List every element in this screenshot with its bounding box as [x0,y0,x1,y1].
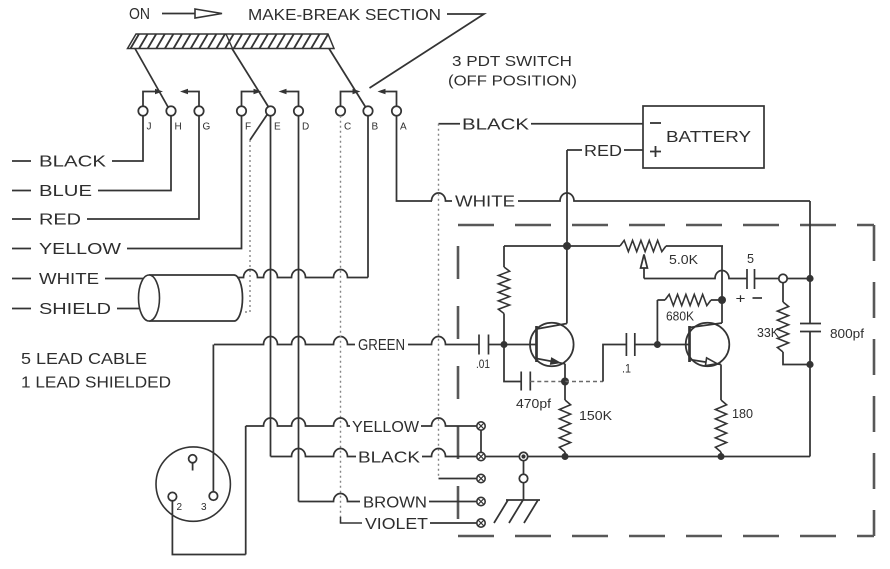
wire 680K down to Q2 base node [656,300,658,345]
lead-in dash for RED [12,218,31,220]
wire pin 2 to YELLOW riser [172,426,245,555]
connector pin 1 key [189,455,197,463]
svg-text:YELLOW: YELLOW [39,241,121,258]
wire WHITE to right rail with hop over RED [518,193,810,201]
svg-text:J: J [147,122,152,133]
svg-text:GREEN: GREEN [358,337,405,354]
dotted wire 470pf to emitter node [530,381,565,383]
capacitor C5 800pf [800,324,821,332]
svg-text:(OFF POSITION): (OFF POSITION) [448,73,577,90]
slider link to contact E [232,49,269,108]
svg-text:5.0K: 5.0K [669,252,698,267]
transistor Q1 [530,323,574,367]
wire ground rail [485,456,810,458]
wire base node down to 470pf [504,345,521,382]
wire wiper to capacitor with hop [644,271,747,279]
svg-text:180: 180 [732,406,753,421]
wire VIOLET row [341,517,363,523]
wire pot end down to collector node Q2 [721,246,723,323]
svg-text:E: E [274,122,281,133]
pot wiper arrow [641,255,648,269]
wire pin 3 to GREEN riser [212,345,214,492]
node Q2 base junction [654,341,661,348]
throw arrow [386,92,397,107]
svg-text:D: D [302,122,309,133]
wire BLACK lead to contact J [112,116,143,161]
svg-text:33K: 33K [757,325,779,340]
resistor R1 bias [503,246,505,267]
svg-text:470pf: 470pf [516,396,551,411]
battery plus sign [650,146,661,157]
svg-text:RED: RED [39,212,81,229]
connector P1 circle [156,447,230,521]
switch contact A [392,106,401,115]
output terminal circle [779,274,787,282]
wire contact E down to BLACK ground row [270,116,272,457]
wire contact A down to WHITE node [397,116,433,201]
ON direction arrow [162,13,195,15]
svg-text:G: G [203,122,211,133]
switch contact J [138,106,147,115]
lead-in dash for SHIELD [12,308,31,310]
wire BROWN row (hop) [299,494,361,502]
slider link to contact B [329,49,366,108]
svg-text:F: F [245,122,251,133]
svg-text:SHIELD: SHIELD [39,301,111,318]
dotted wire contact C down to VIOLET row [340,116,342,523]
shield wire diagonal from contact E [250,115,267,141]
cable left end ellipse [139,275,160,321]
svg-text:A: A [400,122,407,133]
wire GREEN row [214,337,355,345]
throw arrow [242,92,254,107]
terminal lug 2 [477,452,485,460]
chassis ground symbol [506,499,540,501]
node output junction [806,275,813,282]
resistor R6 33K [782,283,784,302]
svg-text:BLUE: BLUE [39,183,92,200]
strap between yellow and black terminals [480,430,482,452]
svg-text:MAKE-BREAK SECTION: MAKE-BREAK SECTION [248,7,441,24]
terminal lug 3 [477,474,485,482]
node 33K/800pf junction [806,361,813,368]
slider link to contact H [135,49,168,108]
wire RED down to supply rail [566,150,568,246]
battery minus sign [650,122,661,124]
svg-text:.01: .01 [476,357,490,371]
switch contact G [194,106,203,115]
svg-text:BLACK: BLACK [39,154,107,171]
hop over battery-minus dotted wire [432,193,453,201]
switch contact B [363,106,372,115]
wire contact D down to BROWN row [298,116,300,502]
label - polarity [753,297,763,299]
svg-text:BLACK: BLACK [358,450,421,467]
svg-text:680K: 680K [666,309,694,324]
terminal lug 4 [477,497,485,505]
svg-text:150K: 150K [579,408,612,423]
node Q1 emitter junction [561,378,569,386]
wire WHITE lead into cable [105,278,144,280]
capacitor C3 .1 [626,333,634,356]
switch slider hatched bar [128,34,335,49]
resistor R2 150K [564,382,566,401]
terminal on ground rail [519,452,527,460]
svg-text:H: H [175,122,182,133]
wire YELLOW row (hops) [246,418,350,426]
svg-text:BLACK: BLACK [462,117,530,134]
capacitor C2 470pf [521,372,530,391]
capacitor C4 5uF [747,269,755,289]
svg-text:YELLOW: YELLOW [352,419,419,436]
svg-text:BATTERY: BATTERY [666,129,751,146]
svg-text:5 LEAD CABLE: 5 LEAD CABLE [21,351,147,368]
svg-text:.1: .1 [622,362,631,376]
svg-text:B: B [372,122,379,133]
wire elbow to shield terminal [439,478,477,480]
svg-text:C: C [344,122,351,133]
wire RED lead to contact G [87,116,199,219]
lead-in dash for WHITE [12,278,31,280]
svg-text:5: 5 [747,251,754,266]
transistor Q2 [686,323,730,367]
lead-in dash for YELLOW [12,248,31,250]
wire right rail [809,201,811,457]
switch contact F [237,106,246,115]
wire SHIELD lead into cable [117,308,140,310]
wire cap to output terminal [755,278,779,280]
ground stub and terminal [523,461,525,475]
switch contact E [266,106,275,115]
svg-text:3 PDT SWITCH: 3 PDT SWITCH [452,53,572,70]
wire up to coupling cap .1 [603,345,626,382]
dotted wire battery minus down to terminal [438,124,440,479]
cable right end arc [234,275,243,321]
wire BLUE lead to contact H [98,116,171,191]
svg-text:RED: RED [584,143,622,160]
svg-text:2: 2 [177,502,183,513]
wire cable WHITE to contact B (hops) [237,270,368,278]
switch contact H [166,106,175,115]
dotted wire emitter node to coupling cap [565,381,603,383]
potentiometer R4 5.0K [620,240,666,251]
terminal lug 1 [477,422,485,430]
lead-in dash for BLUE [12,190,31,192]
lead-in dash for BLACK [12,160,31,162]
svg-text:VIOLET: VIOLET [365,516,429,533]
throw arrow [188,92,199,107]
node Q1 base junction [501,341,508,348]
wire supply rail [504,245,723,247]
throw arrow [143,92,155,107]
node 150K/ground junction [562,453,569,460]
battery B1 box [643,106,764,168]
wire BLACK ground row (hops) [271,449,357,457]
node supply/collector junction [563,242,571,250]
svg-text:BROWN: BROWN [363,495,427,512]
throw arrow [341,92,353,107]
svg-text:800pf: 800pf [830,326,864,341]
capacitor C1 .01 [479,335,489,355]
connector pin 3 [209,492,217,500]
wire BLACK battery-minus row [439,123,644,125]
pointer line to switch pole B [370,14,485,88]
switch contact C [336,106,345,115]
cable body (5 lead cable) [149,275,234,321]
amplifier dashed enclosure box [458,225,874,536]
node 680K/collector junction [718,296,726,304]
switch contact D [294,106,303,115]
node 180/ground junction [718,453,725,460]
svg-text:3: 3 [201,502,207,513]
resistor R3 180 [715,400,726,452]
wire YELLOW lead to contact F [127,116,242,249]
wire RED battery-plus row [567,149,643,151]
connector pin 2 [168,492,176,500]
svg-text:WHITE: WHITE [39,271,99,288]
resistor R5 680K [657,299,722,301]
svg-text:+: + [736,291,746,306]
svg-text:1 LEAD SHIELDED: 1 LEAD SHIELDED [21,375,171,392]
shield dotted wire down to cable [243,140,251,312]
terminal lug 5 [477,519,485,527]
svg-text:WHITE: WHITE [455,194,515,211]
throw arrow [287,92,299,107]
svg-text:ON: ON [129,6,150,23]
